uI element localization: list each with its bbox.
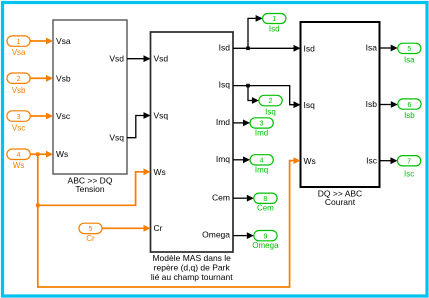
outport 4 Imq (250, 155, 273, 175)
svg-text:5: 5 (89, 226, 93, 233)
svg-text:Isc: Isc (404, 169, 414, 178)
svg-text:Ws: Ws (154, 167, 166, 177)
svg-text:Ws: Ws (56, 149, 68, 159)
svg-text:3: 3 (260, 121, 264, 128)
svg-text:lié au champ tournant: lié au champ tournant (151, 272, 233, 282)
inport 4 Ws (7, 149, 30, 170)
svg-text:Isb: Isb (404, 111, 415, 120)
svg-text:Vsb: Vsb (12, 86, 26, 95)
svg-text:Isa: Isa (404, 56, 415, 65)
svg-text:Cem: Cem (212, 192, 230, 202)
svg-text:2: 2 (269, 98, 273, 105)
svg-text:Isd: Isd (219, 43, 231, 53)
svg-text:4: 4 (17, 152, 21, 159)
svg-text:1: 1 (272, 16, 276, 23)
svg-text:Vsc: Vsc (12, 124, 25, 133)
svg-text:Vsc: Vsc (56, 111, 71, 121)
inport 5 Cr (79, 223, 102, 243)
svg-text:Isd: Isd (304, 43, 316, 53)
svg-text:Isd: Isd (269, 25, 280, 34)
wire Isb (380, 101, 398, 108)
svg-text:Cr: Cr (154, 223, 163, 233)
svg-text:Courant: Courant (325, 197, 356, 207)
outport 7 Isc (398, 156, 421, 179)
svg-text:Cem: Cem (257, 204, 274, 213)
svg-text:repère (d,q) de Park: repère (d,q) de Park (154, 263, 231, 273)
inport 1 Vsa (7, 36, 30, 57)
wire Ws trunk down and bottom (38, 154, 301, 287)
block Modele MAS (151, 32, 234, 282)
svg-text:4: 4 (260, 158, 264, 165)
wire Vsd (127, 55, 151, 62)
svg-text:Modèle MAS dans le: Modèle MAS dans le (152, 253, 231, 263)
wire Imq (233, 156, 250, 163)
wire Vsa (30, 38, 53, 45)
svg-text:6: 6 (407, 102, 411, 109)
svg-text:Isq: Isq (265, 108, 276, 117)
outport 8 Cem (254, 193, 277, 213)
outport 3 Imd (250, 118, 273, 138)
svg-text:Imq: Imq (216, 154, 230, 164)
svg-text:Vsd: Vsd (109, 54, 124, 64)
svg-text:Tension: Tension (75, 184, 105, 194)
svg-text:Imd: Imd (216, 117, 230, 127)
svg-text:Isq: Isq (304, 100, 316, 110)
svg-text:Vsa: Vsa (12, 48, 26, 57)
svg-text:Omega: Omega (202, 230, 230, 240)
block ABC >> DQ Tension (53, 20, 127, 194)
wire Vsq (127, 112, 151, 138)
svg-text:Isa: Isa (366, 42, 378, 52)
svg-text:Isb: Isb (366, 99, 378, 109)
wire Imd (233, 120, 250, 127)
svg-text:Vsa: Vsa (56, 36, 71, 46)
junction Ws B (36, 204, 40, 208)
outport 6 Isb (398, 99, 421, 120)
svg-text:Isc: Isc (366, 155, 378, 165)
outport 5 Isa (398, 43, 421, 64)
inport 2 Vsb (7, 73, 30, 95)
svg-text:Cr: Cr (86, 234, 95, 243)
wire Vsc (30, 113, 53, 120)
wire Isc (380, 157, 398, 164)
outport 9 Omega (252, 231, 279, 250)
wire Ws branch to MAS (38, 168, 151, 205)
svg-text:Vsd: Vsd (154, 54, 169, 64)
svg-text:3: 3 (17, 114, 21, 121)
wire Cr (102, 225, 150, 232)
svg-text:Vsq: Vsq (154, 111, 169, 121)
svg-text:Ws: Ws (304, 156, 316, 166)
wire Isa (380, 45, 398, 52)
junction Isq (246, 84, 250, 88)
svg-text:2: 2 (17, 76, 21, 83)
outport 2 Isq (259, 95, 282, 116)
wire Isd branch to outport 1 (248, 15, 263, 48)
wire Isq (233, 86, 301, 109)
wire Omega (233, 232, 254, 239)
junction Isd (246, 47, 250, 51)
wire Vsb (30, 75, 53, 82)
svg-text:1: 1 (17, 39, 21, 46)
outport 1 Isd (263, 14, 286, 34)
svg-text:7: 7 (407, 158, 411, 165)
wire Isq branch to outport 2 (248, 86, 259, 104)
svg-text:Isq: Isq (219, 80, 231, 90)
svg-text:Omega: Omega (252, 241, 279, 250)
svg-text:Vsb: Vsb (56, 73, 71, 83)
inport 3 Vsc (7, 111, 30, 133)
block DQ >> ABC Courant (301, 22, 380, 207)
junction Ws A (36, 152, 40, 156)
svg-text:5: 5 (407, 46, 411, 53)
svg-text:9: 9 (263, 233, 267, 240)
wire Cem (233, 195, 254, 202)
svg-text:Ws: Ws (13, 161, 25, 170)
svg-text:Imq: Imq (255, 165, 268, 174)
svg-text:Imd: Imd (255, 128, 268, 137)
wire Ws to block1 (30, 151, 53, 158)
wire Isd (233, 45, 301, 52)
svg-text:8: 8 (263, 196, 267, 203)
svg-text:Vsq: Vsq (109, 133, 124, 143)
